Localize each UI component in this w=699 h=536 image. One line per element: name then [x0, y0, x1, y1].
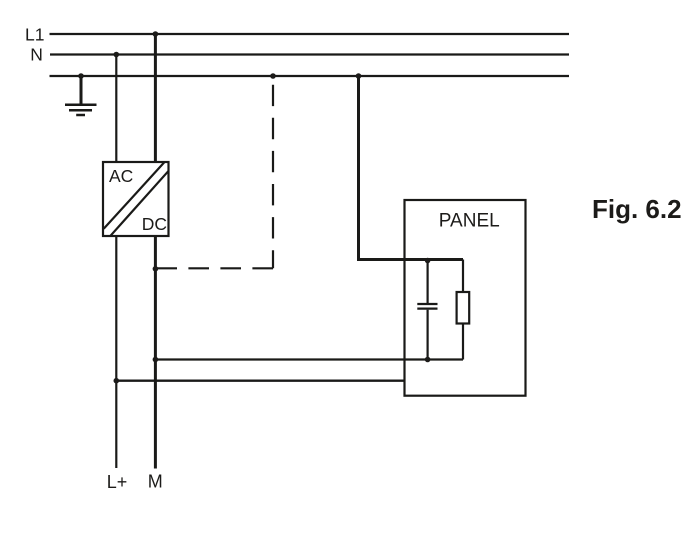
svg-text:AC: AC [109, 166, 133, 186]
svg-text:M: M [148, 472, 163, 492]
svg-text:DC: DC [142, 214, 167, 234]
svg-text:PANEL: PANEL [439, 210, 500, 231]
svg-text:N: N [30, 45, 43, 65]
svg-text:L+: L+ [107, 472, 128, 492]
svg-text:Fig. 6.2: Fig. 6.2 [592, 194, 682, 224]
svg-text:L1: L1 [25, 25, 44, 45]
